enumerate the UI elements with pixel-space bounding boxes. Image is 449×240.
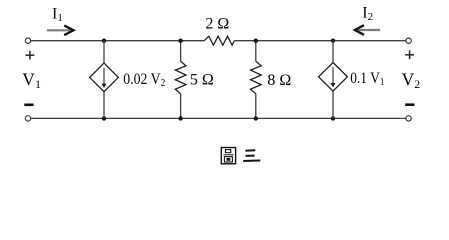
svg-text:2 Ω: 2 Ω [205,15,229,32]
wire top left segment [31,40,204,42]
node 8ohm top junction [254,39,258,43]
dependent source G2 leads [332,41,334,119]
dependent source G1 leads [103,41,105,119]
caption glyph san (three) [243,150,260,161]
svg-text:V1: V1 [22,70,41,92]
plus sign port 1 [26,51,35,60]
plus sign port 2 [405,50,414,59]
node 5ohm top junction [178,39,182,43]
terminal port 1 top [25,38,30,43]
terminal port 2 bottom [406,116,411,121]
dependent source G2 arrow [331,67,336,87]
dependent source G2 0.1 V1 diamond [319,63,348,92]
minus sign port 1 [24,104,33,107]
terminal port 2 top [406,38,411,43]
terminal port 1 bottom [25,116,30,121]
current arrow I2 [355,25,380,35]
svg-text:0.02 V2: 0.02 V2 [123,71,165,89]
node 5ohm bottom junction [178,116,182,120]
dependent source G1 arrow [102,68,107,88]
node A top junction [102,39,106,43]
caption glyph tu (figure) [221,148,235,164]
node 8ohm bottom junction [254,116,258,120]
resistor R=8ohm leads [255,41,257,119]
node B bottom junction [331,116,335,120]
resistor R=5ohm zigzag [175,61,186,94]
node B top junction [331,39,335,43]
svg-text:I2: I2 [362,5,373,24]
svg-text:0.1 V1: 0.1 V1 [350,70,384,88]
svg-text:I1: I1 [52,6,63,25]
minus sign port 2 [405,103,414,106]
svg-text:5 Ω: 5 Ω [190,71,214,88]
wire bottom [31,117,406,119]
resistor R=8ohm zigzag [251,61,262,94]
dependent source G1 0.02 V2 diamond [90,63,119,92]
svg-text:8 Ω: 8 Ω [267,72,291,89]
current arrow I1 [47,26,74,36]
wire top right segment [234,40,406,42]
resistor R=2ohm zigzag [204,36,234,45]
resistor R=5ohm leads [180,41,182,119]
node A bottom junction [102,116,106,120]
svg-text:V2: V2 [402,70,421,92]
